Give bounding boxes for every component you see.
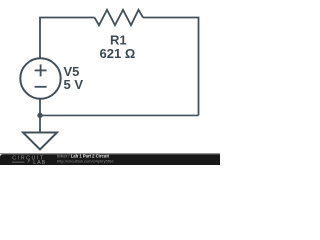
wire junction to ground	[39, 116, 41, 133]
svg-text:5 V: 5 V	[64, 77, 84, 92]
svg-text:http://circuitlab.com/c/4pbry5: http://circuitlab.com/c/4pbry5f6d	[57, 158, 113, 163]
wire bottom segment	[42, 114, 199, 116]
node junction dot	[37, 113, 42, 118]
wire voltage source bottom to junction	[39, 99, 41, 116]
svg-text:LAB: LAB	[33, 160, 46, 165]
wire top-right segment	[143, 18, 199, 116]
resistor R1 zigzag	[95, 10, 144, 25]
wire top-left segment	[40, 18, 95, 59]
plus sign inside source	[35, 69, 47, 71]
minus sign inside source	[35, 86, 47, 88]
svg-text:621 Ω: 621 Ω	[100, 46, 136, 61]
voltage source V5 circle	[20, 58, 60, 98]
footer watermark bar	[0, 153, 220, 166]
ground symbol	[23, 133, 57, 150]
svg-text:R1: R1	[110, 32, 127, 47]
